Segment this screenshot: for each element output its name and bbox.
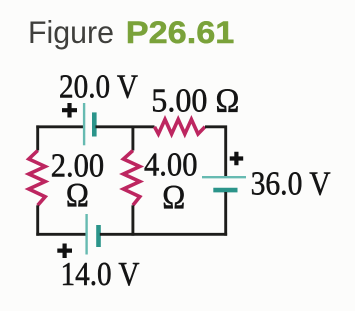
wire bottom-right segment bbox=[133, 233, 227, 236]
battery V1 20.0 V (plates) bbox=[84, 103, 94, 145]
svg-text:36.0 V: 36.0 V bbox=[251, 165, 331, 202]
svg-text:20.0 V: 20.0 V bbox=[59, 69, 138, 106]
wire top-left segment bbox=[36, 125, 83, 128]
svg-text:Ω: Ω bbox=[66, 177, 89, 214]
svg-text:P26.61: P26.61 bbox=[126, 14, 235, 50]
plus sign battery V2 bbox=[230, 152, 244, 166]
wire right rail lower bbox=[224, 192, 227, 236]
battery V2 36.0 V (plates) bbox=[202, 177, 246, 190]
resistor R3 5.00 ohm (zigzag) bbox=[155, 119, 206, 134]
svg-text:5.00 Ω: 5.00 Ω bbox=[151, 82, 239, 119]
wire top-middle segment bbox=[96, 125, 155, 128]
wire middle rail upper bbox=[131, 127, 134, 151]
plus sign battery V3 bbox=[57, 244, 72, 259]
wire left rail upper bbox=[36, 125, 39, 150]
label 4.00 ohm (two lines) bbox=[144, 146, 198, 216]
resistor R2 4.00 ohm (zigzag) bbox=[123, 151, 139, 206]
svg-text:Ω: Ω bbox=[162, 179, 185, 216]
resistor R1 2.00 ohm (zigzag) bbox=[29, 151, 45, 206]
svg-text:Figure: Figure bbox=[28, 14, 114, 50]
wire bottom-middle segment bbox=[100, 233, 133, 236]
wire bottom-left segment bbox=[36, 233, 85, 236]
battery V3 14.0 V (plates) bbox=[87, 214, 99, 255]
wire middle rail lower bbox=[131, 205, 134, 235]
plus sign battery V1 bbox=[62, 103, 77, 118]
label 2.00 ohm (two lines) bbox=[51, 148, 104, 214]
wire top-right segment into right rail upper bbox=[205, 125, 226, 176]
svg-text:14.0 V: 14.0 V bbox=[61, 256, 140, 293]
svg-text:4.00: 4.00 bbox=[144, 146, 198, 183]
wire left rail lower bbox=[36, 205, 39, 235]
